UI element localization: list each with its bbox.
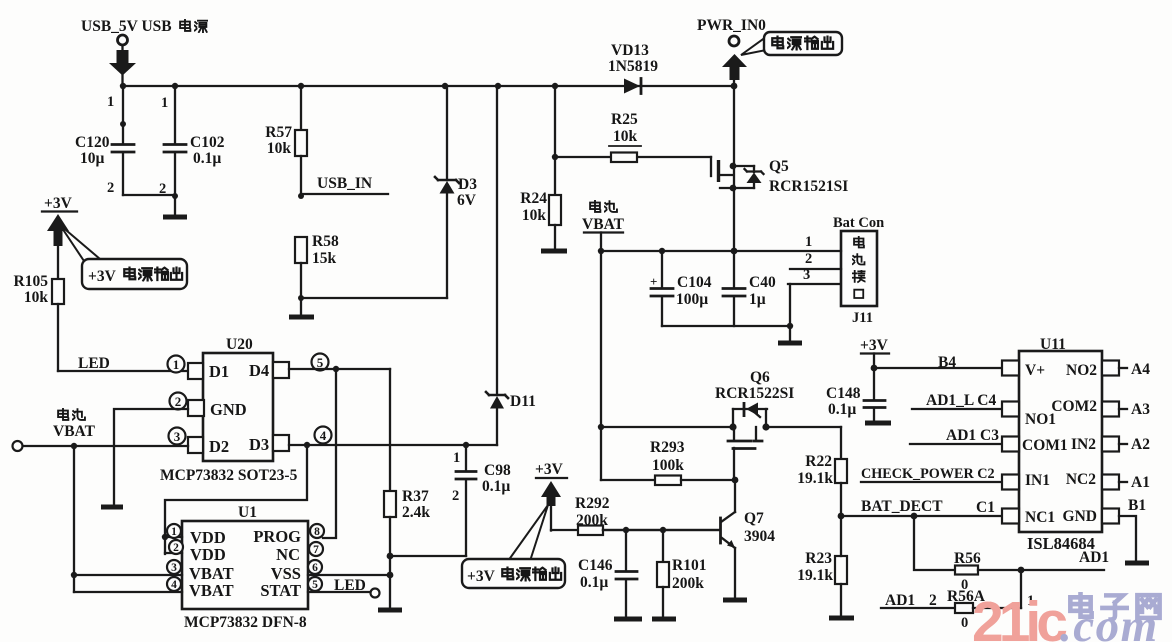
svg-text:RCR1522SI: RCR1522SI	[715, 385, 794, 402]
svg-text:BAT_DECT: BAT_DECT	[861, 498, 943, 515]
svg-text:D1: D1	[209, 362, 229, 381]
svg-text:LED: LED	[78, 355, 110, 372]
svg-text:3: 3	[171, 562, 177, 574]
power flag +3V (left)	[42, 195, 77, 246]
svg-text:6: 6	[312, 562, 318, 574]
svg-text:2.4k: 2.4k	[402, 504, 430, 521]
ground under R58	[289, 298, 314, 317]
svg-text:NO2: NO2	[1066, 362, 1097, 379]
resistor R24	[520, 83, 567, 251]
net label CHECK_POWER C2	[861, 466, 1002, 482]
capacitor C104	[650, 251, 712, 326]
callout +3V 电源输出 (middle)	[462, 505, 565, 588]
resistor R293	[601, 439, 738, 485]
svg-text:D4: D4	[249, 361, 269, 380]
svg-text:USB_5V USB: USB_5V USB	[81, 18, 172, 35]
pin stub B1 to ground	[1119, 497, 1149, 563]
svg-text:19.1k: 19.1k	[797, 470, 833, 487]
svg-text:ISL84684: ISL84684	[1027, 534, 1095, 553]
svg-text:1µ: 1µ	[749, 291, 766, 308]
svg-text:R22: R22	[805, 453, 832, 470]
svg-text:2: 2	[805, 251, 812, 267]
svg-text:+3V: +3V	[535, 461, 564, 478]
svg-text:10k: 10k	[613, 128, 638, 145]
svg-text:0.1µ: 0.1µ	[482, 478, 510, 495]
svg-text:MCP73832 DFN-8: MCP73832 DFN-8	[184, 614, 307, 631]
svg-text:A3: A3	[1131, 401, 1150, 418]
svg-text:1: 1	[173, 357, 180, 372]
svg-text:J11: J11	[852, 310, 873, 326]
svg-text:0: 0	[961, 615, 968, 631]
svg-text:COM1: COM1	[1022, 437, 1068, 454]
svg-text:A1: A1	[1131, 474, 1150, 491]
node USB_IN	[301, 175, 388, 194]
svg-text:U20: U20	[226, 336, 253, 353]
capacitor C148	[826, 368, 891, 423]
wire: R58 bottom to D3 bottom	[301, 297, 447, 299]
zener diode D3	[435, 83, 477, 298]
svg-text:IN1: IN1	[1025, 472, 1050, 489]
wire: Q6 drain to R22	[766, 426, 841, 428]
power flag +3V (right)	[860, 337, 889, 371]
svg-text:R101: R101	[672, 557, 706, 574]
svg-text:+3V: +3V	[88, 268, 117, 285]
IC U20 MCP73832 SOT23-5	[160, 336, 332, 484]
svg-text:GND: GND	[1063, 508, 1097, 525]
svg-text:3904: 3904	[744, 528, 775, 545]
svg-text:VDD: VDD	[190, 545, 226, 564]
svg-text:D3: D3	[458, 176, 477, 193]
svg-text:IN2: IN2	[1071, 436, 1096, 453]
svg-text:Bat Con: Bat Con	[833, 215, 884, 231]
svg-text:R292: R292	[575, 495, 610, 512]
svg-text:1: 1	[805, 234, 812, 250]
capacitor C102	[159, 83, 225, 215]
pin stub A3	[1119, 401, 1150, 418]
watermark 电子网	[1070, 593, 1159, 619]
svg-text:R56: R56	[954, 550, 981, 567]
svg-text:Q7: Q7	[744, 510, 764, 527]
wire: C120 bottom to C102	[123, 194, 175, 196]
svg-text:NC: NC	[276, 545, 300, 564]
terminal VBAT (left battery input)	[13, 409, 96, 451]
svg-text:STAT: STAT	[260, 581, 301, 600]
svg-text:PROG: PROG	[253, 527, 301, 546]
svg-text:VBAT: VBAT	[53, 423, 96, 440]
svg-text:LED: LED	[334, 577, 366, 594]
IC U1 MCP73832 DFN-8	[167, 504, 324, 631]
svg-text:B4: B4	[938, 354, 956, 371]
wire: U20 D3 output net	[289, 442, 497, 448]
svg-text:6V: 6V	[457, 192, 477, 209]
capacitor C40	[723, 251, 776, 326]
svg-text:COM2: COM2	[1051, 398, 1097, 415]
resistor R105	[14, 246, 64, 371]
svg-text:5: 5	[312, 579, 318, 591]
svg-text:2: 2	[173, 542, 179, 554]
wire: ground rail under C98	[390, 555, 466, 557]
svg-text:CHECK_POWER C2: CHECK_POWER C2	[861, 466, 995, 482]
pin stub A1	[1119, 474, 1150, 491]
net label AD1_L C4	[912, 392, 1002, 409]
pin stub A4	[1119, 361, 1150, 378]
capacitor C98	[452, 445, 511, 556]
wire: VBAT down to U1 pins 3,4	[71, 446, 182, 592]
svg-text:PWR_IN0: PWR_IN0	[697, 17, 766, 34]
svg-text:+3V: +3V	[860, 337, 889, 354]
svg-text:VBAT: VBAT	[582, 216, 625, 233]
svg-text:C120: C120	[75, 134, 110, 151]
wire: battery rail down to Q6	[598, 251, 604, 480]
svg-text:100µ: 100µ	[676, 291, 708, 308]
resistor R57	[265, 83, 307, 199]
svg-text:AD1: AD1	[885, 592, 915, 609]
svg-text:NC1: NC1	[1025, 509, 1055, 526]
svg-text:MCP73832 SOT23-5: MCP73832 SOT23-5	[160, 467, 298, 484]
svg-text:R37: R37	[402, 488, 429, 505]
svg-text:U1: U1	[238, 504, 257, 521]
wire: +3V to U11 V+ (B4)	[874, 354, 1002, 371]
capacitor C146	[578, 530, 642, 619]
IC U11 ISL84684	[1002, 336, 1119, 553]
svg-text:1: 1	[171, 526, 177, 538]
svg-text:C98: C98	[484, 462, 511, 479]
svg-text:3: 3	[803, 267, 810, 283]
svg-text:0.1µ: 0.1µ	[580, 574, 608, 591]
svg-text:21ic: 21ic	[972, 590, 1067, 642]
resistor R25	[552, 111, 711, 162]
wire: U1 STAT to LED terminal	[308, 577, 380, 598]
wire: U20 pin5 net to PROG	[289, 366, 390, 538]
svg-text:D3: D3	[249, 435, 269, 454]
svg-text:2: 2	[159, 181, 166, 197]
svg-text:2: 2	[452, 488, 459, 504]
watermark 21ic.com	[972, 590, 1159, 642]
resistor R56A (0 ohm)	[947, 588, 1021, 631]
svg-text:5: 5	[317, 355, 324, 370]
resistor R23	[797, 516, 854, 618]
svg-text:VD13: VD13	[611, 42, 649, 59]
svg-text:100k: 100k	[652, 457, 684, 474]
svg-text:0.1µ: 0.1µ	[193, 150, 221, 167]
svg-text:1N5819: 1N5819	[608, 58, 658, 75]
svg-text:AD1_L C4: AD1_L C4	[926, 392, 996, 409]
svg-text:C40: C40	[749, 274, 776, 291]
callout 电源输出 (power output)	[741, 32, 842, 55]
wire: U1 VSS to ground	[308, 574, 390, 576]
terminal USB_5V	[81, 18, 207, 89]
connector J11 Bat Con	[788, 215, 884, 326]
svg-text:10k: 10k	[522, 207, 547, 224]
svg-text:10k: 10k	[267, 140, 292, 157]
svg-text:R24: R24	[520, 190, 547, 207]
net label BAT_DECT	[838, 498, 1002, 519]
wire: U20 GND pin2 to ground	[101, 409, 188, 507]
wire: capacitor bottoms	[662, 323, 793, 329]
resistor R22	[797, 427, 847, 516]
ground under C102	[163, 215, 187, 220]
svg-text:C148: C148	[826, 385, 861, 402]
svg-text:10k: 10k	[24, 289, 49, 306]
svg-text:R57: R57	[265, 124, 292, 141]
svg-text:+3V: +3V	[44, 195, 73, 212]
svg-text:0.1µ: 0.1µ	[828, 401, 856, 418]
svg-text:+: +	[650, 274, 657, 289]
svg-text:RCR1521SI: RCR1521SI	[769, 178, 848, 195]
ground under battery connector	[778, 326, 802, 343]
zener diode D11	[486, 83, 536, 445]
terminal PWR_IN0	[697, 17, 766, 89]
svg-text:4: 4	[320, 428, 327, 443]
callout +3V 电源输出 (left)	[60, 225, 187, 289]
svg-text:R105: R105	[14, 273, 49, 290]
svg-text:2: 2	[175, 394, 182, 409]
svg-text:1: 1	[453, 450, 460, 466]
svg-text:R25: R25	[611, 111, 638, 128]
svg-text:Q5: Q5	[769, 158, 789, 175]
svg-text:R293: R293	[650, 439, 685, 456]
svg-text:+3V: +3V	[467, 568, 496, 585]
wire: PWR node down through Q5 to battery rail	[733, 86, 735, 251]
svg-text:7: 7	[313, 544, 319, 556]
resistor R292	[551, 495, 719, 535]
diode VD13 1N5819	[608, 42, 658, 94]
svg-text:NC2: NC2	[1066, 471, 1096, 488]
svg-text:A2: A2	[1131, 436, 1150, 453]
wire: main top rail	[123, 85, 734, 87]
svg-text:USB_IN: USB_IN	[317, 175, 372, 192]
svg-text:10µ: 10µ	[80, 150, 105, 167]
svg-text:1: 1	[161, 95, 168, 111]
power flag +3V (middle)	[535, 461, 567, 531]
svg-text:VBAT: VBAT	[189, 581, 234, 600]
resistor R37	[378, 369, 430, 610]
svg-text:R23: R23	[805, 550, 832, 567]
svg-text:Q6: Q6	[750, 369, 770, 386]
svg-text:1: 1	[107, 94, 114, 110]
svg-text:V+: V+	[1025, 362, 1045, 379]
wire: VBAT to U20 pin3	[23, 443, 188, 449]
svg-text:C102: C102	[190, 134, 225, 151]
wire: Q6 source rail	[601, 426, 734, 428]
svg-text:A4: A4	[1131, 361, 1150, 378]
resistor R56 (0 ohm)	[914, 516, 1109, 593]
svg-text:B1: B1	[1128, 497, 1146, 514]
svg-text:200k: 200k	[576, 512, 608, 529]
svg-text:2: 2	[929, 592, 937, 609]
wire: battery rail	[598, 248, 841, 255]
svg-text:D2: D2	[209, 437, 229, 456]
svg-text:C104: C104	[677, 274, 712, 291]
net label AD1 2	[881, 570, 1034, 609]
wire: VDD net from node4 to U1 pins 1,2	[162, 445, 307, 554]
svg-text:4: 4	[171, 579, 177, 591]
transistor Q6 RCR1522SI	[715, 369, 794, 480]
wire: LED net to U20 pin1	[58, 355, 188, 372]
svg-text:3: 3	[174, 429, 181, 444]
resistor R101	[652, 530, 706, 619]
svg-text:D11: D11	[510, 393, 536, 410]
svg-text:19.1k: 19.1k	[797, 567, 833, 584]
capacitor C120	[75, 86, 134, 196]
net label AD1 C3	[910, 427, 1002, 444]
svg-text:8: 8	[314, 526, 320, 538]
pin stub A2	[1119, 436, 1150, 453]
transistor Q5 RCR1521SI	[711, 157, 848, 195]
svg-text:200k: 200k	[672, 575, 704, 592]
svg-text:R58: R58	[312, 233, 339, 250]
svg-text:C1: C1	[976, 499, 995, 516]
svg-text:AD1 C3: AD1 C3	[946, 427, 999, 444]
svg-text:C146: C146	[578, 557, 613, 574]
svg-text:2: 2	[107, 180, 114, 196]
transistor Q7 3904	[603, 480, 775, 600]
net label VBAT (battery)	[582, 201, 625, 251]
svg-text:15k: 15k	[312, 250, 337, 267]
resistor R58	[295, 233, 339, 301]
svg-text:GND: GND	[210, 400, 247, 419]
